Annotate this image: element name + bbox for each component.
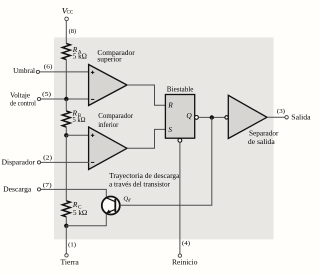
wire VCC to RA (pin 8) — [66, 21, 76, 44]
terminal Reinicio — [172, 240, 198, 267]
flip-flop U3 Biestable — [165, 84, 194, 138]
wire ground line (pin 1) — [65, 226, 67, 254]
svg-text:inferior: inferior — [98, 120, 119, 129]
svg-text:R: R — [72, 200, 78, 209]
svg-text:Q: Q — [186, 111, 192, 120]
wire lower comparator output to S input — [127, 129, 165, 148]
svg-text:5 kΩ: 5 kΩ — [73, 53, 87, 61]
wire Descarga to transistor collector — [41, 189, 107, 197]
svg-text:de salida: de salida — [248, 137, 276, 146]
svg-text:(5): (5) — [42, 91, 51, 98]
wire RC bottom to ground node — [65, 217, 67, 226]
svg-text:superior: superior — [97, 54, 122, 63]
wire Umbral to upper comparator + input — [40, 71, 89, 73]
wire reset line (pin 4) — [179, 142, 181, 254]
node Q junction — [210, 115, 214, 119]
svg-text:(6): (6) — [44, 64, 53, 71]
op-amp U1 upper comparator — [89, 48, 136, 106]
wire buffer output to Salida terminal (pin 3) — [267, 108, 285, 117]
svg-text:(3): (3) — [277, 108, 285, 115]
svg-text:a través del transistor: a través del transistor — [109, 179, 170, 188]
terminal Tierra (ground) — [61, 241, 80, 266]
IC package body — [54, 38, 274, 240]
resistor RB — [62, 108, 85, 127]
wire node B to lower comparator + input — [66, 134, 89, 136]
wire node B down to RC — [65, 135, 67, 201]
svg-text:(4): (4) — [182, 240, 190, 247]
node B junction (RB/RC) — [64, 133, 68, 137]
svg-text:(2): (2) — [43, 155, 52, 162]
terminal Salida — [285, 112, 311, 121]
wire RB bottom to node B — [65, 127, 67, 135]
svg-text:Disparador: Disparador — [2, 158, 36, 167]
svg-text:Salida: Salida — [291, 112, 311, 121]
wire RB top — [65, 99, 67, 111]
node ground junction — [64, 224, 68, 228]
svg-text:5 kΩ: 5 kΩ — [73, 209, 87, 217]
op-amp U4 output buffer (Separador de salida) — [228, 95, 279, 146]
Q output inverter bubble — [195, 116, 199, 120]
svg-text:Biestable: Biestable — [167, 84, 194, 93]
svg-text:5 kΩ: 5 kΩ — [73, 116, 86, 124]
wire Disparador to lower comparator - input — [41, 161, 89, 163]
svg-text:Tierra: Tierra — [61, 258, 80, 267]
wire flip-flop Q node to transistor base — [120, 118, 212, 206]
terminal Disparador (pin 2) — [2, 155, 52, 167]
svg-text:Descarga: Descarga — [3, 184, 32, 193]
terminal Umbral (pin 6) — [13, 64, 52, 76]
svg-text:(8): (8) — [69, 28, 77, 35]
svg-text:de control: de control — [10, 99, 36, 108]
svg-text:(7): (7) — [43, 182, 52, 189]
resistor RC — [62, 200, 87, 217]
reset input bubble (bottom of flip-flop) — [178, 139, 182, 143]
svg-text:S: S — [168, 125, 172, 134]
svg-text:(1): (1) — [68, 241, 76, 248]
node VCC terminal — [62, 5, 74, 20]
output buffer input bubble — [225, 116, 228, 119]
label discharge path note — [109, 171, 180, 188]
svg-text:R: R — [167, 101, 173, 110]
transistor Qd (discharge) — [102, 195, 131, 214]
wire ground node to transistor emitter — [66, 213, 106, 226]
wire RA bottom to node A — [65, 60, 67, 100]
terminal Voltaje de control (pin 5) — [10, 91, 51, 108]
op-amp U2 lower comparator — [89, 111, 134, 170]
resistor RA — [62, 44, 87, 61]
svg-text:CC: CC — [67, 11, 74, 16]
svg-text:Comparador: Comparador — [98, 111, 133, 120]
wire control voltage to upper comparator - input — [41, 98, 89, 100]
wire Q to output buffer — [198, 116, 225, 118]
svg-text:Umbral: Umbral — [13, 66, 35, 75]
node A junction (RA/RB, pin5) — [64, 97, 68, 101]
wire upper comparator output to R input — [127, 85, 165, 105]
terminal Descarga (pin 7) — [3, 182, 52, 193]
svg-text:Separador: Separador — [249, 128, 279, 137]
svg-text:Reinicio: Reinicio — [172, 258, 198, 267]
